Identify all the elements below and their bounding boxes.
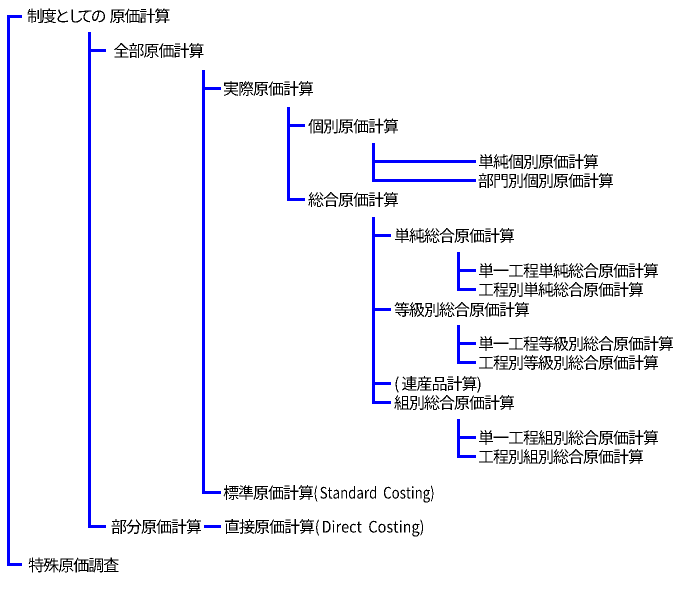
node 組別総合原価計算 — [394, 395, 514, 410]
node 工程別組別総合原価計算 — [479, 449, 643, 464]
wire H1 to node1 — [7, 15, 22, 18]
wire H21 to node21 — [7, 563, 22, 566]
node 部分原価計算 — [112, 519, 202, 534]
wire H15 to node15 — [372, 401, 391, 404]
wire H16 to node16 — [457, 436, 476, 439]
wire V1 trunk — [7, 15, 10, 566]
node (連産品計算) — [395, 376, 480, 393]
wire H5 to node5 — [372, 160, 476, 163]
wire V7 branch — [457, 252, 460, 291]
wire H10 to node10 — [457, 288, 476, 291]
node 単一工程単純総合原価計算 — [479, 263, 658, 278]
node 単一工程等級別総合原価計算 — [479, 336, 673, 351]
node 工程別単純総合原価計算 — [479, 282, 643, 297]
wire V8 branch — [457, 325, 460, 364]
node 単純総合原価計算 — [395, 228, 514, 243]
node 標準原価計算(Standard Costing) — [223, 485, 433, 503]
wire V2 trunk — [88, 32, 91, 528]
wire H7 to node7 — [287, 198, 305, 201]
wire V9 branch — [457, 419, 460, 458]
node 実際原価計算 — [224, 81, 313, 96]
node 工程別等級別総合原価計算 — [479, 355, 658, 370]
wire V4 branch — [287, 107, 290, 201]
wire H6 to node6 — [372, 179, 476, 182]
node 特殊原価調査 — [29, 558, 119, 573]
wire H14 to node14 — [372, 382, 391, 385]
wire H2 to node2 — [88, 49, 106, 52]
wire H13 to node13 — [457, 361, 476, 364]
wire H19 to node19 — [88, 525, 106, 528]
node 単一工程組別総合原価計算 — [479, 430, 658, 445]
node 部門別個別原価計算 — [479, 173, 613, 188]
wire H9 to node9 — [457, 269, 476, 272]
wire H4 to node4 — [287, 124, 305, 127]
node 制度としての原価計算 — [27, 8, 169, 23]
wire V5 branch — [372, 143, 375, 182]
node 直接原価計算(Direct Costing) — [225, 519, 423, 537]
wire H11 to node11 — [372, 308, 391, 311]
node 全部原価計算 — [114, 43, 204, 58]
wire H18 to node18 — [202, 491, 221, 494]
wire V3 trunk — [202, 70, 205, 494]
wire V6 trunk — [372, 217, 375, 404]
wire H8 to node8 — [372, 234, 391, 237]
node 個別原価計算 — [308, 119, 398, 134]
node 単純個別原価計算 — [479, 154, 598, 169]
node 総合原価計算 — [308, 192, 398, 207]
wire H3 to node3 — [202, 87, 221, 90]
wire H12 to node12 — [457, 342, 476, 345]
wire H19b node19-20 — [204, 525, 221, 528]
node 等級別総合原価計算 — [395, 302, 530, 317]
wire H17 to node17 — [457, 455, 476, 458]
